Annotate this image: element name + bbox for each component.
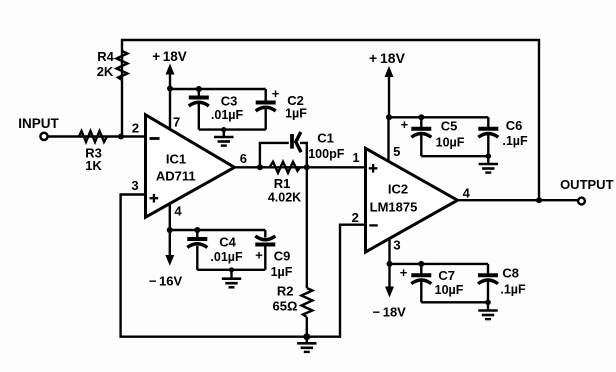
svg-text:− 18V: − 18V	[373, 305, 407, 320]
svg-text:+ 18V: + 18V	[369, 50, 406, 66]
svg-text:2K: 2K	[97, 64, 114, 79]
svg-text:2: 2	[352, 210, 359, 225]
svg-text:.1µF: .1µF	[500, 283, 526, 297]
svg-text:3: 3	[131, 178, 138, 193]
svg-text:− 16V: − 16V	[149, 274, 183, 289]
svg-text:.01µF: .01µF	[210, 250, 243, 264]
svg-text:C8: C8	[502, 266, 519, 281]
svg-text:C9: C9	[274, 249, 291, 264]
svg-text:.1µF: .1µF	[502, 134, 528, 148]
svg-text:R2: R2	[277, 284, 294, 299]
svg-text:IC2: IC2	[388, 182, 408, 197]
svg-text:3: 3	[393, 238, 400, 253]
svg-text:IC1: IC1	[166, 152, 186, 167]
svg-text:+: +	[401, 117, 409, 132]
svg-text:OUTPUT: OUTPUT	[560, 177, 614, 192]
svg-text:C3: C3	[221, 94, 238, 109]
svg-text:+: +	[272, 86, 280, 101]
svg-text:5: 5	[393, 144, 400, 159]
svg-text:LM1875: LM1875	[370, 200, 418, 215]
svg-text:R1: R1	[274, 176, 291, 191]
svg-text:10µF: 10µF	[436, 136, 465, 150]
svg-text:4: 4	[174, 204, 182, 219]
svg-text:4: 4	[463, 186, 471, 201]
svg-text:1µF: 1µF	[271, 265, 293, 279]
svg-text:INPUT: INPUT	[18, 116, 59, 131]
svg-text:10µF: 10µF	[435, 283, 464, 297]
svg-text:C4: C4	[219, 235, 236, 250]
svg-text:2: 2	[132, 121, 139, 136]
svg-text:6: 6	[240, 151, 247, 166]
svg-text:1: 1	[352, 150, 359, 165]
svg-text:AD711: AD711	[156, 169, 196, 184]
svg-text:+: +	[400, 265, 408, 280]
svg-text:+ 18V: + 18V	[152, 49, 187, 64]
svg-text:C7: C7	[438, 268, 455, 283]
svg-text:1K: 1K	[85, 158, 102, 173]
svg-text:65Ω: 65Ω	[273, 299, 298, 314]
svg-text:.01µF: .01µF	[211, 108, 244, 122]
svg-text:4.02K: 4.02K	[268, 191, 301, 205]
svg-text:7: 7	[173, 114, 180, 129]
svg-text:C5: C5	[441, 119, 458, 134]
svg-text:1µF: 1µF	[285, 107, 307, 121]
svg-text:100pF: 100pF	[308, 147, 344, 161]
svg-text:R4: R4	[97, 49, 114, 64]
svg-text:+: +	[255, 247, 263, 262]
svg-text:C6: C6	[506, 118, 523, 133]
svg-text:C1: C1	[317, 131, 334, 146]
